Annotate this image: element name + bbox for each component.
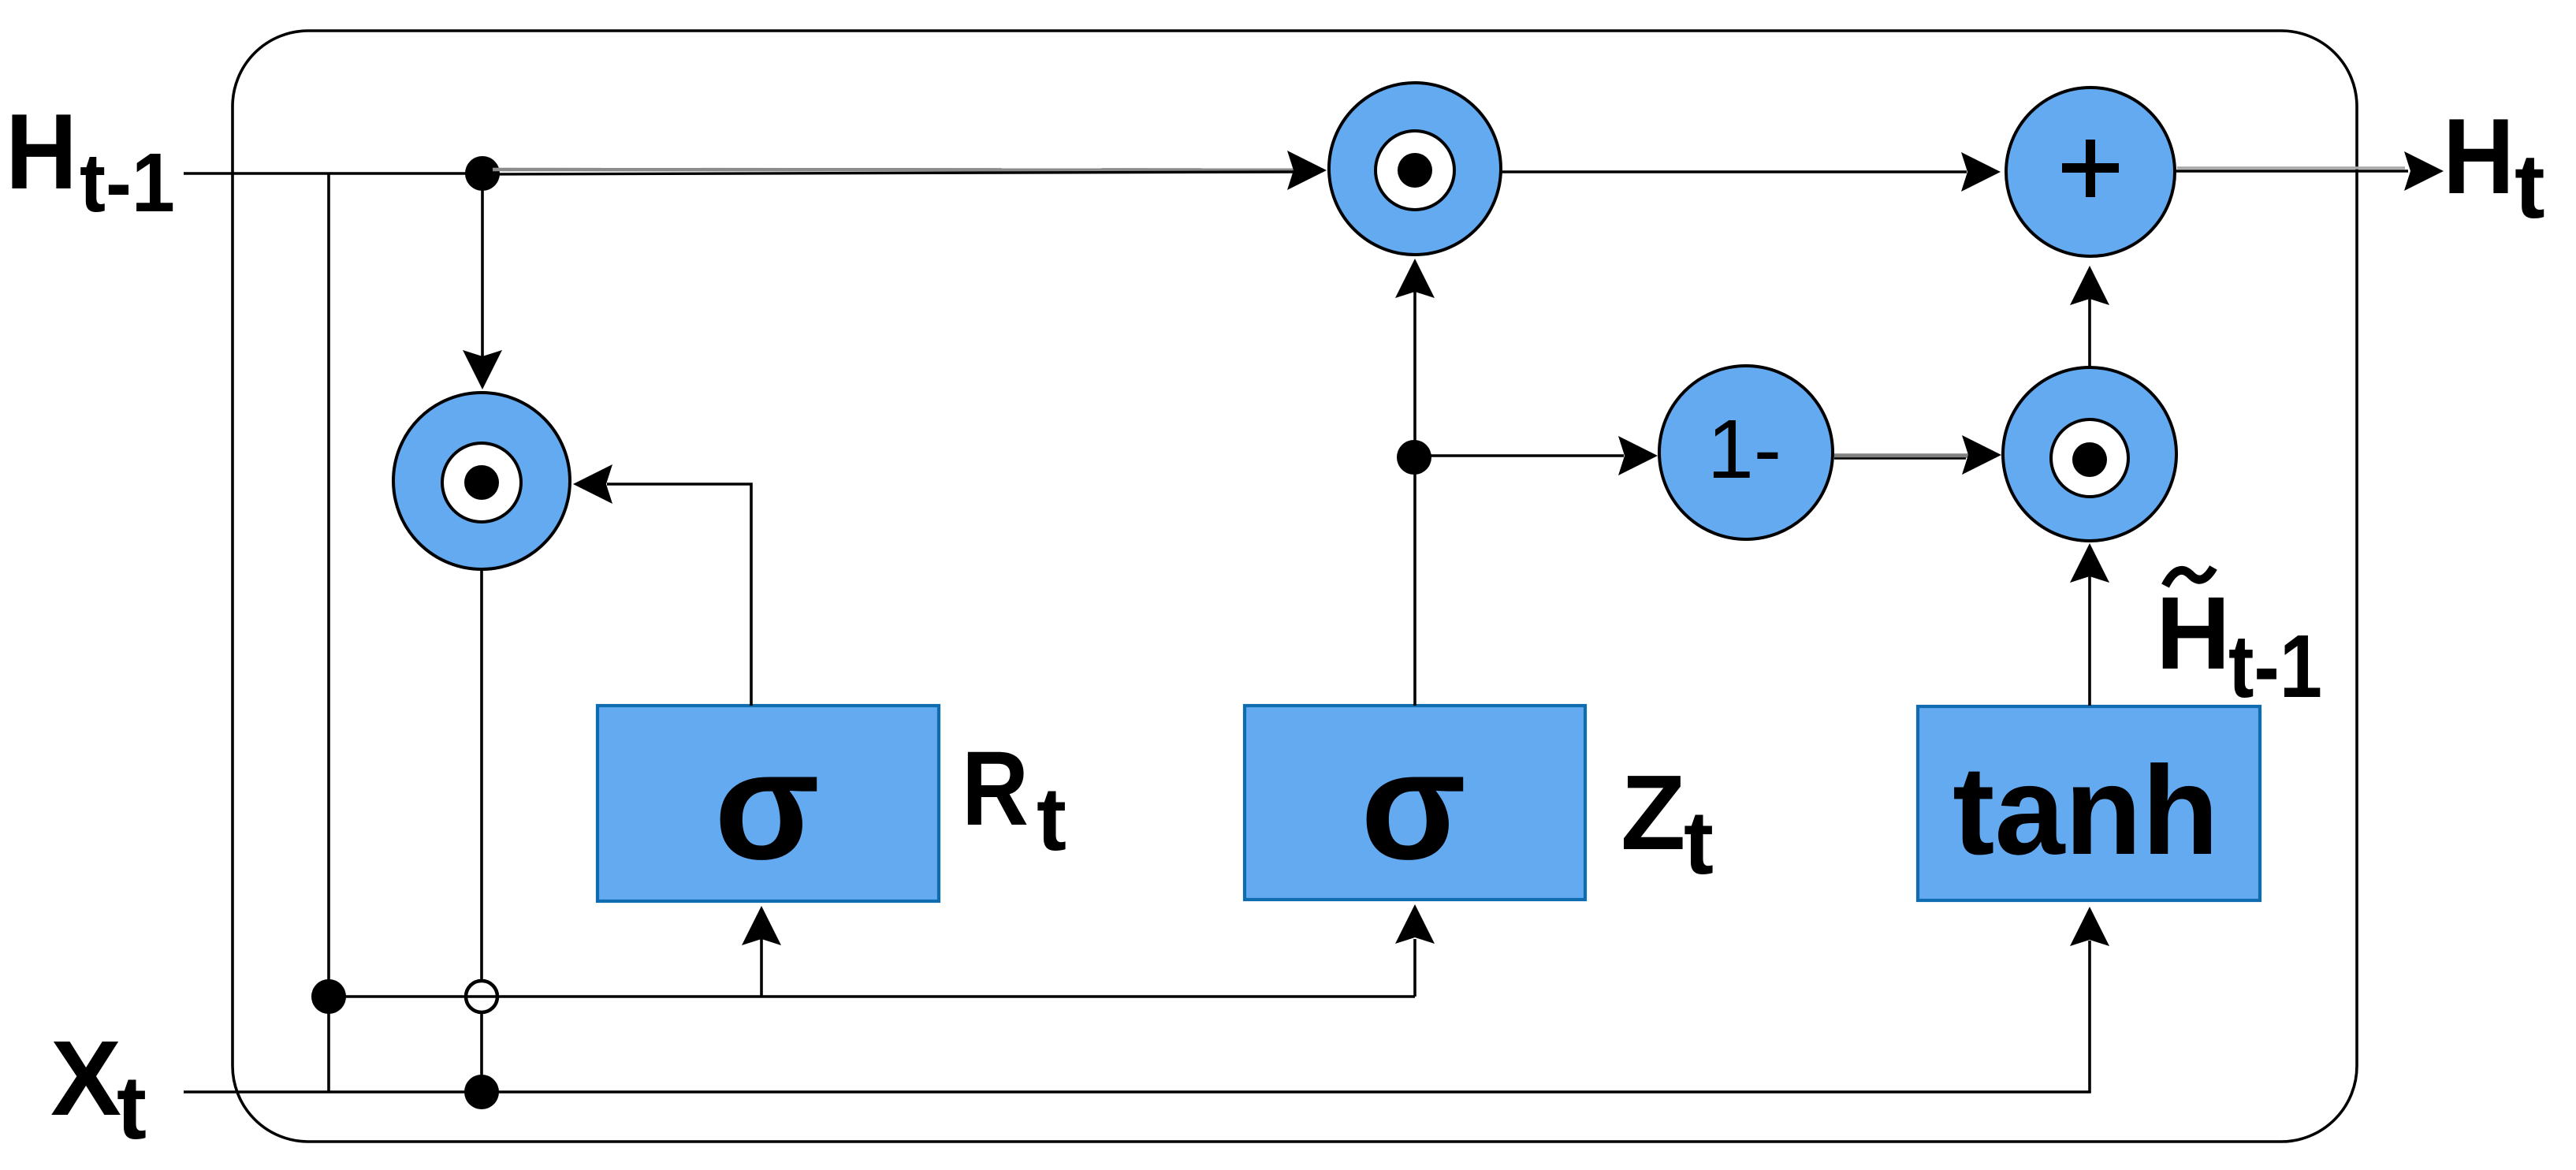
one-minus node (1659, 366, 1833, 539)
junction dot A (612,220) (465, 156, 500, 191)
svg-text:t-1: t-1 (2228, 617, 2322, 716)
label H_t-1 (top-left input) (6, 91, 175, 229)
wire A down into M2 (481, 173, 484, 356)
junction dot on X_t line (611,1385) (464, 1075, 499, 1109)
wire B to one-minus node (1414, 454, 1624, 457)
wire tanh output up to M3 (2088, 576, 2091, 706)
svg-text:σ: σ (1361, 719, 1466, 892)
svg-text:H: H (6, 91, 77, 211)
wire M1 to plus node (1502, 170, 1967, 173)
tanh box (candidate state) (1918, 706, 2260, 900)
plus node (2006, 88, 2175, 256)
wire R box output (top) to M2 (607, 484, 751, 706)
svg-text:t: t (2515, 135, 2545, 237)
svg-text:R: R (962, 730, 1029, 848)
svg-text:1-: 1- (1707, 403, 1781, 496)
svg-text:H: H (2156, 575, 2231, 691)
hop (no-connection) open circle on concat line (466, 981, 497, 1012)
svg-text:t: t (1037, 769, 1067, 870)
sigma box Z (update gate) (1245, 706, 1585, 900)
wire X_t input along bottom and up into tanh (184, 941, 2090, 1092)
sigma box R (reset gate) (597, 706, 939, 901)
wire M3 up into plus node (2088, 299, 2091, 367)
svg-text:t: t (1684, 793, 1714, 893)
svg-text:X: X (50, 1019, 121, 1138)
svg-text:t-1: t-1 (80, 136, 175, 229)
wire up into Z box bottom (1413, 939, 1416, 997)
label H~_t-1 (candidate) (2156, 568, 2322, 716)
label Z_t (1621, 753, 1714, 893)
concat wire y=1264 from branch dot to Z box (329, 995, 1415, 998)
multiply node M3 (right element-wise product) (2003, 367, 2176, 541)
svg-text:Z: Z (1621, 753, 1685, 872)
wire A to multiply node M1 (gray double stroke) (493, 168, 1301, 172)
wire branch down at x=417 (H_t-1 to concat line) (327, 173, 330, 1092)
multiply node M1 (top element-wise product) (1329, 83, 1501, 255)
svg-text:σ: σ (714, 719, 820, 892)
wire H_t-1 input to junction A (184, 172, 482, 175)
junction dot (417,1264) (311, 979, 346, 1014)
svg-text:t: t (117, 1058, 147, 1158)
multiply node M2 (left element-wise product) (393, 393, 570, 569)
label R_t (962, 730, 1067, 870)
label X_t (bottom-left input) (50, 1019, 147, 1158)
svg-text:tanh: tanh (1952, 740, 2219, 881)
wire M2 bottom down to X_t line (480, 568, 483, 1092)
wire plus to H_t output (2174, 170, 2408, 173)
wire up into R box bottom (760, 939, 763, 997)
label H_t (output) (2443, 96, 2545, 237)
cell border (rounded rectangle) (233, 31, 2357, 1142)
svg-text:H: H (2443, 96, 2515, 216)
wire Z output up to M1 (1413, 292, 1416, 706)
wire one-minus to M3 (gray) (1834, 453, 1968, 458)
junction dot B on Z output (1794,580) (1397, 440, 1431, 475)
